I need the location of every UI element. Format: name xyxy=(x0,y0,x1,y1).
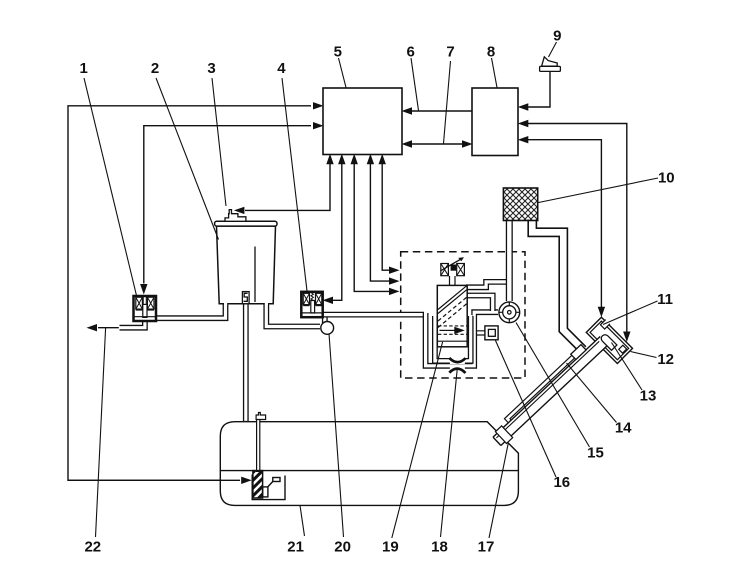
arrow into canister cap xyxy=(234,207,245,214)
pipe valve body to sensor line xyxy=(466,296,493,313)
vent valve circle 20 xyxy=(321,322,334,335)
arrow into box8 lower xyxy=(462,140,473,147)
wire filler sensor a to box8 xyxy=(528,124,627,332)
pipe inner loop around valve body xyxy=(435,315,471,361)
leader 8 xyxy=(492,58,498,88)
pipe valve body to canister vent line xyxy=(466,282,507,287)
arrow into tank pump xyxy=(241,477,252,484)
leader 14 xyxy=(567,363,617,423)
fuel pump circle 15 xyxy=(499,302,520,323)
tank inner fuel line xyxy=(221,470,519,472)
svg-text:4: 4 xyxy=(277,60,286,77)
EVAP canister 2 xyxy=(215,221,277,303)
wire purge outlet arrow xyxy=(98,327,120,329)
svg-text:21: 21 xyxy=(287,538,304,555)
wire ECM to solenoid 1 xyxy=(144,126,311,284)
filler tube body xyxy=(493,337,608,446)
arrow down to filler cap b xyxy=(598,307,605,318)
callout labels xyxy=(80,28,675,556)
leader 6 xyxy=(411,58,419,111)
leader 12 xyxy=(631,352,657,358)
leader 13 xyxy=(612,343,643,391)
arrow into module b xyxy=(389,277,400,284)
wire filler sensor b to box8 xyxy=(528,140,601,307)
filler neck mouth parts (rotated group) xyxy=(600,330,627,357)
svg-text:11: 11 xyxy=(657,291,673,308)
jet pump link xyxy=(266,482,273,489)
canister bottom check valve (5-shape) xyxy=(242,292,249,304)
leader 5 xyxy=(339,58,347,88)
jet pump body xyxy=(263,487,268,497)
pipe solenoid1 to canister left port xyxy=(155,302,226,318)
control module box 8 xyxy=(472,88,518,156)
leader 21 xyxy=(300,505,305,536)
svg-text:18: 18 xyxy=(431,538,448,555)
valve solenoid on top xyxy=(441,257,465,285)
jet pump small box xyxy=(273,478,280,482)
pressure regulator valve body 19 xyxy=(437,285,467,346)
ECM box 5 xyxy=(323,88,402,155)
svg-text:2: 2 xyxy=(151,60,159,77)
svg-text:9: 9 xyxy=(553,28,561,45)
canister inner divider xyxy=(254,247,256,303)
canister cap 3 xyxy=(225,210,246,222)
air filter 10 (crosshatched) xyxy=(503,188,537,221)
leader 16 xyxy=(496,341,557,478)
svg-text:19: 19 xyxy=(382,538,399,555)
wire into tank pump (over tank) xyxy=(68,479,240,481)
inlet check notch xyxy=(600,320,609,329)
pipe stub solenoid4 to valve 20 xyxy=(322,315,328,323)
wire box8 to ECM upper xyxy=(412,110,472,112)
leader 7 xyxy=(444,61,451,144)
fuel tank 21 xyxy=(220,422,518,506)
wire box8 to ECM lower bidirectional xyxy=(412,143,462,145)
leader 11 xyxy=(603,301,658,325)
leader 3 xyxy=(212,78,226,206)
filler neck housing 11 (rotated group) xyxy=(586,316,633,363)
svg-text:7: 7 xyxy=(446,43,454,60)
svg-text:10: 10 xyxy=(658,169,675,186)
fuel pump module dashed boundary xyxy=(401,252,525,378)
svg-text:13: 13 xyxy=(640,388,657,405)
leader 10 xyxy=(539,178,659,203)
arrow up into ECM b5 xyxy=(379,154,386,165)
arrow up into ECM b3 xyxy=(351,154,358,165)
arrow up into ECM b4 xyxy=(367,154,374,165)
wire switch 9 to box8 xyxy=(528,72,550,108)
leader 19 xyxy=(392,342,443,538)
pipe tank suction tube xyxy=(256,418,260,472)
pipe outer loop in module xyxy=(426,312,498,366)
wire ECM to pump module c xyxy=(354,164,389,291)
suction tube fitting on tank top xyxy=(256,413,266,420)
arrow into module c xyxy=(389,288,400,295)
pipe solenoid1 to purge outlet xyxy=(119,317,145,328)
canister port openings xyxy=(224,303,268,305)
leader 22 xyxy=(96,328,106,537)
inner filler pipe 13 xyxy=(600,333,617,350)
fuel filter sock (hatched) xyxy=(253,471,263,498)
leader 2 xyxy=(156,78,219,240)
pipe solenoid4 to fuel pump module xyxy=(322,312,425,318)
pipe air filter 10 to filler neck vent xyxy=(532,220,583,350)
leader 9 xyxy=(549,42,557,57)
arrow up into ECM b1 xyxy=(326,154,333,165)
fuel pump reservoir in tank xyxy=(252,475,285,500)
pipe air filter 10 down to pump circle xyxy=(506,220,513,302)
canister vent solenoid valve 4 xyxy=(301,292,322,317)
purge solenoid valve 1 xyxy=(134,296,157,321)
svg-text:8: 8 xyxy=(487,43,495,60)
leader lines xyxy=(84,42,658,538)
svg-text:15: 15 xyxy=(587,444,604,461)
housing inner wall xyxy=(590,321,629,360)
svg-text:16: 16 xyxy=(553,474,570,491)
wire ECM to solenoid 4 xyxy=(333,164,342,300)
svg-text:1: 1 xyxy=(80,60,88,77)
arrow into ECM left lower xyxy=(313,122,324,129)
fuel filler tube 14 (rotated group) xyxy=(488,331,610,447)
leader 15 xyxy=(516,323,590,448)
wire ECM feedback loop left xyxy=(68,106,311,481)
svg-text:3: 3 xyxy=(207,60,215,77)
wire ECM to pump module b xyxy=(370,164,389,281)
svg-text:14: 14 xyxy=(615,420,632,437)
tube inner line xyxy=(496,341,599,438)
wire ECM to pump module a xyxy=(382,164,389,270)
vent recirculation tube along filler xyxy=(504,355,576,423)
svg-text:12: 12 xyxy=(657,351,674,368)
arrow into solenoid 4 xyxy=(323,297,334,304)
svg-text:22: 22 xyxy=(84,538,101,555)
svg-text:6: 6 xyxy=(407,43,415,60)
wire ECM to canister cap xyxy=(245,164,330,210)
arrow into module a xyxy=(389,267,400,274)
pipe canister right port to valve 20 xyxy=(266,302,320,327)
svg-text:5: 5 xyxy=(334,43,342,60)
arrow into ECM left top xyxy=(313,102,324,109)
canister lid xyxy=(215,221,277,226)
venturi restriction 18 xyxy=(449,358,465,374)
arrow up into ECM b2 xyxy=(338,154,345,165)
rocker switch 9 xyxy=(540,57,561,72)
filler hose collar 17 xyxy=(495,426,512,444)
fuel pressure sensor square 16 xyxy=(477,326,498,340)
fuel cap 12 xyxy=(619,345,627,353)
pipes drawn as black/white double strokes xyxy=(119,220,583,422)
svg-text:17: 17 xyxy=(478,538,495,555)
arrow down to filler cap a xyxy=(623,332,630,343)
leader 17 xyxy=(489,444,508,539)
leader 4 xyxy=(282,78,307,291)
svg-text:20: 20 xyxy=(334,538,351,555)
pipe canister drain to tank xyxy=(243,302,249,422)
arrow down into solenoid 1 xyxy=(140,284,147,295)
leader 1 xyxy=(84,78,137,296)
leader 20 xyxy=(329,334,344,538)
housing outer shell xyxy=(586,317,632,363)
leader 18 xyxy=(441,368,458,538)
vent fitting collar xyxy=(571,345,586,360)
